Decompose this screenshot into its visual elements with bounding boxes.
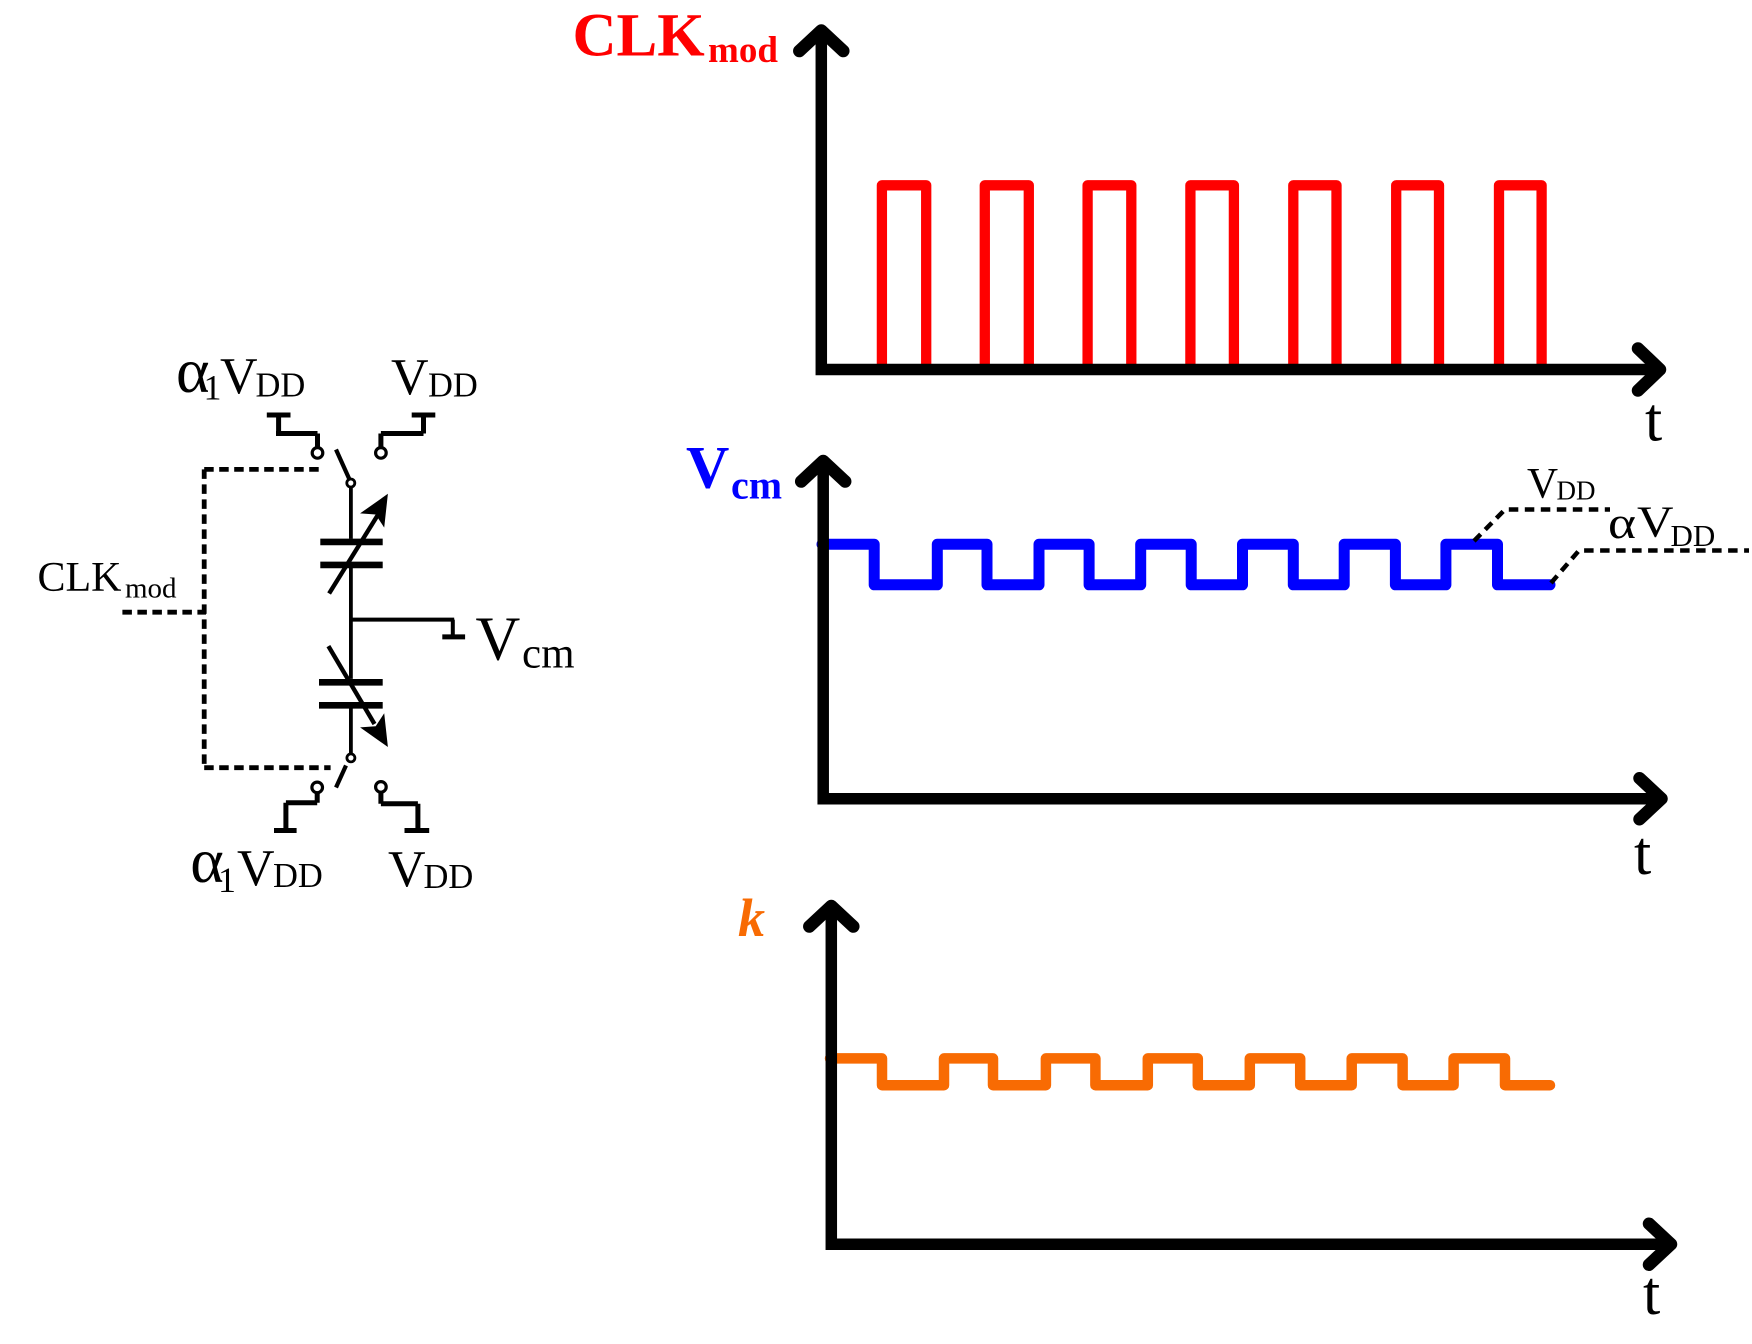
terminal stub a1VDD bottom-left <box>274 782 323 830</box>
svg-text:DD: DD <box>1557 476 1596 506</box>
svg-text:cm: cm <box>522 631 575 678</box>
svg-text:DD: DD <box>273 857 323 895</box>
wire dashed control bus vertical <box>202 469 207 766</box>
leader dashed VDD (annotation to blue high level) <box>1474 510 1610 542</box>
svg-text:DD: DD <box>424 858 474 896</box>
axis bottom plot (L-shaped) <box>831 912 1664 1244</box>
svg-text:CLK: CLK <box>38 555 122 601</box>
terminal stub a1VDD top-left <box>267 415 323 458</box>
axis top plot (L-shaped) <box>821 38 1652 370</box>
waveform Vcm (blue square wave) <box>822 544 1550 585</box>
svg-text:V: V <box>686 434 729 500</box>
svg-text:V: V <box>1527 461 1558 508</box>
svg-text:α: α <box>1608 498 1636 548</box>
svg-text:DD: DD <box>428 367 478 405</box>
label Vcm (blue title) <box>686 434 782 507</box>
terminal stub VDD top-right <box>376 415 436 458</box>
svg-text:t: t <box>1643 1260 1660 1328</box>
leader dashed aVDD (annotation to blue low level) <box>1551 551 1749 584</box>
node Vcm stub (wire + terminal bar) <box>351 620 465 637</box>
svg-text:V: V <box>388 841 426 898</box>
label VDD (bottom right supply) <box>388 841 473 898</box>
svg-text:DD: DD <box>1671 518 1716 553</box>
svg-text:cm: cm <box>731 462 782 507</box>
svg-text:V: V <box>1637 498 1674 547</box>
label VDD (top right supply) <box>391 349 478 406</box>
switch S2 bottom (pivot + blade) <box>336 754 355 788</box>
wire dashed control to bottom switch <box>204 765 330 770</box>
terminal stub VDD bottom-right <box>376 782 430 831</box>
svg-text:1: 1 <box>218 860 236 900</box>
arrowhead top plot y-axis <box>799 31 843 52</box>
varactor C2 (bottom, plates + arrow) <box>319 646 388 747</box>
arrowhead middle plot t-axis <box>1640 778 1662 819</box>
arrowhead middle plot y-axis <box>801 461 845 482</box>
svg-text:t: t <box>1634 820 1651 888</box>
wire dashed CLKmod stub <box>122 610 206 615</box>
label aVDD (annotation) <box>1608 498 1715 554</box>
waveform CLKmod (red square pulses) <box>830 185 1542 369</box>
label CLKmod (red title) <box>573 2 779 71</box>
svg-text:V: V <box>391 349 429 406</box>
arrowhead bottom plot y-axis <box>809 906 853 927</box>
svg-text:CLK: CLK <box>573 2 705 69</box>
arrowhead bottom plot t-axis <box>1649 1224 1671 1265</box>
svg-text:mod: mod <box>125 573 177 605</box>
svg-text:1: 1 <box>204 368 222 408</box>
wire switch to varactor C1 <box>349 487 353 539</box>
svg-text:V: V <box>237 840 275 897</box>
svg-text:t: t <box>1645 387 1662 455</box>
wire C1 to node Vcm <box>349 568 353 679</box>
label a1VDD (top left supply) <box>176 335 305 408</box>
wire dashed control to top switch <box>204 467 322 472</box>
switch S1 top (blade + pivot) <box>336 450 355 488</box>
svg-text:V: V <box>220 348 258 405</box>
varactor C1 (top, plates + arrow) <box>320 494 388 594</box>
arrowhead top plot t-axis <box>1638 349 1660 391</box>
svg-text:mod: mod <box>708 30 778 71</box>
svg-text:k: k <box>738 888 765 948</box>
waveform k (orange square wave) <box>830 1058 1550 1085</box>
svg-text:DD: DD <box>256 367 306 405</box>
svg-text:V: V <box>476 606 521 674</box>
label VDD (annotation) <box>1527 461 1596 508</box>
label a1VDD (bottom left supply) <box>190 825 323 900</box>
label CLKmod (circuit input) <box>38 555 178 605</box>
wire C2 to bottom switch <box>349 708 353 753</box>
axis middle plot (L-shaped) <box>823 467 1654 799</box>
label Vcm (circuit) <box>476 606 575 678</box>
